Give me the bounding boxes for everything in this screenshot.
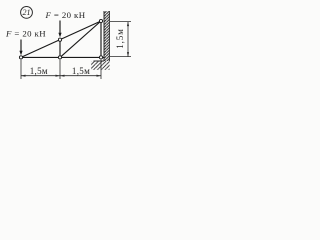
dimension extension line below node A: [20, 60, 22, 79]
node A: [19, 56, 22, 59]
node D: [99, 19, 102, 22]
dimension extension line below node E: [100, 60, 102, 79]
member: diagonal A-B-D: [21, 21, 101, 57]
member: diagonal C-D: [60, 21, 101, 57]
node E: [99, 56, 102, 59]
svg-text:F = 20 кН: F = 20 кН: [45, 10, 86, 20]
force F2 arrow: [58, 21, 61, 38]
svg-text:1,5м: 1,5м: [72, 66, 90, 76]
member: vertical D-E: [100, 21, 102, 57]
dimension line bottom right span: [60, 75, 101, 77]
svg-text:21: 21: [23, 8, 31, 17]
force F1 arrow: [19, 40, 22, 56]
dimension line bottom left span: [21, 75, 60, 77]
dimension line right vertical span: [127, 22, 129, 57]
svg-text:1,5м: 1,5м: [30, 66, 48, 76]
svg-text:F = 20 кН: F = 20 кН: [5, 29, 46, 39]
node B: [58, 38, 61, 41]
svg-text:1,5м: 1,5м: [115, 28, 125, 49]
dimension extension line right top: [110, 21, 131, 23]
support hatch at node E: [91, 61, 110, 70]
node C: [58, 56, 61, 59]
dimension extension line right bottom: [110, 56, 131, 58]
member: vertical B-C: [59, 40, 61, 58]
problem number circle 21: [21, 6, 33, 18]
wall hatching: [104, 11, 110, 61]
dimension extension line below node C: [59, 60, 61, 79]
member: bottom chord A to wall: [21, 56, 104, 58]
